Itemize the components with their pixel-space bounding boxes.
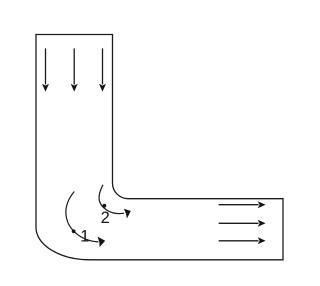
arrowhead of path 1 [98,237,106,247]
svg-text:2: 2 [101,209,110,227]
outlet arrow (right, bottom) [219,237,266,244]
particle dot 1 [72,229,76,233]
duct outline (L-shaped elbow channel) [36,35,283,260]
inlet arrow (down, middle) [71,48,78,91]
streamline path 1 (outer particle path) [66,192,99,242]
outlet arrow (right, top) [219,201,266,208]
outlet arrow (right, middle) [219,220,266,227]
inlet arrow (down, right) [99,48,106,91]
particle dot 2 [103,204,107,208]
streamline path 2 (inner particle path) [99,185,124,214]
svg-text:1: 1 [80,228,89,246]
arrowhead of path 2 [124,209,131,219]
inlet arrow (down, left) [42,48,49,91]
